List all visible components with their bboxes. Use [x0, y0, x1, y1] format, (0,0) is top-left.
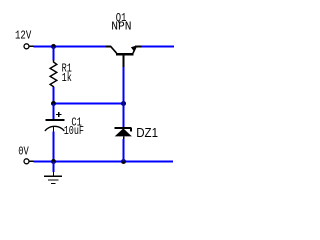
- ground: [44, 172, 62, 184]
- svg-text:1k: 1k: [62, 71, 72, 85]
- svg-text:12V: 12V: [15, 28, 32, 42]
- junction top of R1: [51, 44, 56, 49]
- wire 12V rail: [34, 46, 106, 48]
- wire DZ1 top lead: [123, 104, 125, 128]
- wire C1 bottom lead: [53, 132, 55, 162]
- transistor Q1: [106, 46, 142, 68]
- svg-text:0V: 0V: [18, 145, 29, 159]
- capacitor C1: [45, 112, 65, 132]
- junction 0V rail at DZ1: [121, 159, 126, 164]
- svg-text:10uF: 10uF: [64, 124, 84, 138]
- terminal 12V: [24, 44, 34, 49]
- wire ground lead: [53, 162, 55, 173]
- zener diode DZ1: [115, 128, 132, 140]
- wire base lead: [123, 67, 125, 104]
- resistor R1: [50, 60, 57, 88]
- svg-text:NPN: NPN: [111, 19, 131, 33]
- wire R1 top lead: [53, 47, 55, 61]
- junction mid left: [51, 101, 56, 106]
- wire R1 bottom lead: [53, 87, 55, 104]
- junction 0V rail at ground: [51, 159, 56, 164]
- svg-text:DZ1: DZ1: [136, 126, 158, 140]
- wire mid rail: [54, 103, 124, 105]
- wire DZ1 bottom lead: [123, 139, 125, 162]
- junction mid right: [121, 101, 126, 106]
- wire 0V rail: [34, 161, 174, 163]
- wire C1 top lead: [53, 104, 55, 120]
- wire collector rail: [142, 46, 175, 48]
- terminal 0V: [24, 159, 34, 164]
